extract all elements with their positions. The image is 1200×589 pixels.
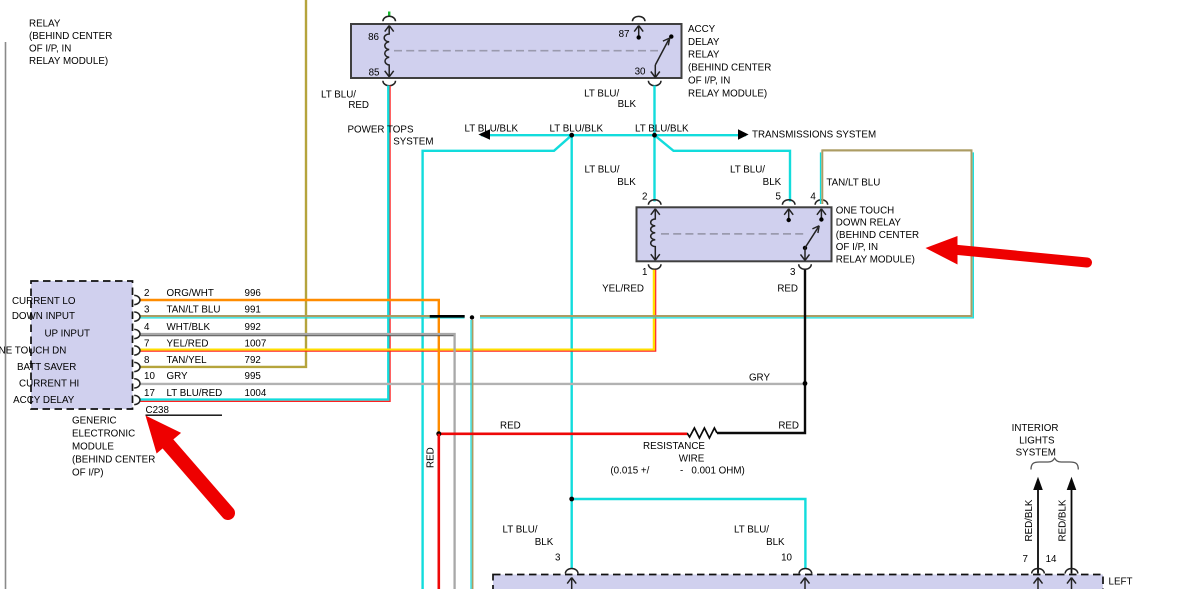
svg-text:1007: 1007 <box>245 338 267 349</box>
wire: bus branch diagonal left to x=422 drop <box>423 135 572 589</box>
svg-text:4: 4 <box>810 192 816 203</box>
connector cup below ACCY pin 30 <box>648 81 661 86</box>
wire: black RED wire from relay pin 3 down to resistor <box>717 270 805 433</box>
svg-text:TAN/LT BLU: TAN/LT BLU <box>167 304 221 315</box>
node: resistance wire caption <box>610 441 744 476</box>
resistor: RESISTANCE WIRE zigzag <box>687 428 717 438</box>
svg-text:SYSTEM: SYSTEM <box>393 136 433 147</box>
module GEM box dashed <box>31 281 133 409</box>
svg-text:TAN/YEL: TAN/YEL <box>167 355 208 366</box>
connector arch above ACCY pin 87 <box>632 16 645 21</box>
svg-text:RED: RED <box>500 421 521 432</box>
node: GEM internal pin function labels <box>0 296 90 406</box>
wire: green stub above pin 86 <box>388 12 390 17</box>
svg-text:GRY: GRY <box>167 371 189 382</box>
svg-text:1: 1 <box>642 267 647 278</box>
svg-text:RESISTANCE: RESISTANCE <box>643 441 705 452</box>
svg-text:YEL/RED: YEL/RED <box>167 338 209 349</box>
connector arch above relay pin 2 <box>648 200 661 205</box>
node: INTERIOR LIGHTS SYSTEM caption <box>1012 423 1059 458</box>
junction dot row 3 splice <box>470 315 474 319</box>
wire: gray off-page wire left edge <box>5 42 7 589</box>
svg-text:5: 5 <box>776 192 782 203</box>
connector arch above bottom pin 10 <box>799 569 812 574</box>
svg-text:BLK: BLK <box>535 537 554 548</box>
svg-text:OF I/P, IN: OF I/P, IN <box>29 44 71 55</box>
svg-text:87: 87 <box>619 29 630 40</box>
node label LT BLU/BLK above relay pin 2 <box>584 164 636 188</box>
wire: LT BLU/BLK bus horizontal <box>481 134 746 136</box>
svg-text:(BEHIND CENTER: (BEHIND CENTER <box>29 31 112 42</box>
node: GEM pin numbers and wire names <box>144 288 267 399</box>
svg-text:86: 86 <box>368 32 379 43</box>
annotation: red arrow pointing to C238 <box>146 416 229 514</box>
svg-text:GENERIC: GENERIC <box>72 416 117 427</box>
pin 4 post with contact dot <box>817 209 826 222</box>
svg-text:GRY: GRY <box>749 373 771 384</box>
relay K1 dashed armature link <box>394 50 658 52</box>
node label LT BLU/BLK below pin 30 <box>584 89 636 111</box>
svg-text:3: 3 <box>555 553 561 564</box>
svg-text:LIGHTS: LIGHTS <box>1019 436 1055 447</box>
relay K2 box ONE TOUCH DOWN RELAY <box>637 207 832 261</box>
svg-text:10: 10 <box>781 553 792 564</box>
svg-text:DELAY: DELAY <box>688 37 720 48</box>
svg-text:BLK: BLK <box>617 177 636 188</box>
connector cup below relay pin 1 <box>648 264 661 269</box>
connector arch above relay pin 4 <box>815 200 828 205</box>
svg-text:17: 17 <box>144 388 155 399</box>
svg-text:LEFT: LEFT <box>1109 577 1133 588</box>
svg-text:BLK: BLK <box>763 177 782 188</box>
junction dot bus right <box>652 133 657 138</box>
svg-text:LT BLU/RED: LT BLU/RED <box>167 388 223 399</box>
svg-text:991: 991 <box>245 304 261 315</box>
connector cup below ACCY pin 85 <box>383 81 396 86</box>
connector arcs GEM pins <box>134 295 140 404</box>
svg-text:LT BLU/: LT BLU/ <box>584 164 619 175</box>
wire: LT BLU/BLK branch y=499 to bottom box pin 10 <box>572 499 806 569</box>
connector arch above relay pin 5 <box>782 200 795 205</box>
svg-text:7: 7 <box>1023 554 1028 565</box>
svg-text:792: 792 <box>245 355 261 366</box>
svg-text:POWER TOPS: POWER TOPS <box>347 124 414 135</box>
svg-text:MODULE: MODULE <box>72 442 114 453</box>
svg-text:RELAY: RELAY <box>688 50 720 61</box>
svg-text:LT BLU/: LT BLU/ <box>584 89 619 100</box>
wire: ORG/WHT 996 from GEM pin 2 down to red splice <box>141 300 439 434</box>
svg-text:BATT SAVER: BATT SAVER <box>17 362 76 373</box>
svg-text:OF I/P): OF I/P) <box>72 468 104 479</box>
connector arch above bottom pin 14 <box>1065 568 1078 573</box>
module: bottom left window motor box dashed <box>493 575 1103 589</box>
node: arrow to POWER TOPS SYSTEM <box>478 129 490 139</box>
pin 5 post with contact dot <box>784 209 793 222</box>
connector arch above bottom pin 3 <box>565 569 578 574</box>
svg-text:WHT/BLK: WHT/BLK <box>167 322 211 333</box>
node label LT BLU/RED <box>321 89 369 111</box>
switch arm of one touch relay to pin 3 <box>801 226 820 261</box>
node label LT BLU/BLK above relay pin 5 <box>730 164 782 188</box>
svg-text:UP INPUT: UP INPUT <box>44 329 90 340</box>
svg-text:CURRENT HI: CURRENT HI <box>19 379 79 390</box>
junction dot red splice <box>436 431 441 436</box>
node: top-left note text RELAY (BEHIND CENTER OF I/P, IN RELAY MODULE) <box>29 19 112 68</box>
wire: bus branch diagonal right to pin 5 <box>655 135 791 201</box>
svg-text:4: 4 <box>144 322 150 333</box>
wire: RED/BLK arrow from interior lights to bottom pin 7 <box>1033 477 1043 574</box>
svg-text:85: 85 <box>369 67 380 78</box>
wire: TAN/LT BLU from GEM pin 3 to black segment <box>141 316 465 318</box>
svg-text:3: 3 <box>790 267 796 278</box>
wire: RED drop to bottom edge <box>437 434 440 589</box>
svg-text:ELECTRONIC: ELECTRONIC <box>72 429 135 440</box>
relay K2 dashed armature link <box>661 233 806 235</box>
svg-text:ACCY DELAY: ACCY DELAY <box>13 395 75 406</box>
node: connector label C238 underlined <box>146 405 223 416</box>
wire: TAN/YEL 792 from GEM pin 8 up to top edge <box>141 0 307 367</box>
connector cup below relay pin 3 <box>799 264 812 269</box>
svg-text:992: 992 <box>245 322 261 333</box>
svg-text:YEL/RED: YEL/RED <box>602 284 644 295</box>
svg-text:RED: RED <box>778 421 799 432</box>
svg-text:TAN/LT BLU: TAN/LT BLU <box>826 178 880 189</box>
svg-text:OF I/P, IN: OF I/P, IN <box>688 76 730 87</box>
svg-text:2: 2 <box>642 192 647 203</box>
svg-text:LT BLU/: LT BLU/ <box>734 525 769 536</box>
svg-text:C238: C238 <box>146 405 170 416</box>
svg-text:ORG/WHT: ORG/WHT <box>167 288 214 299</box>
svg-text:TRANSMISSIONS SYSTEM: TRANSMISSIONS SYSTEM <box>752 129 876 140</box>
svg-text:INTERIOR: INTERIOR <box>1012 423 1059 434</box>
svg-text:3: 3 <box>144 304 150 315</box>
wire: LT BLU/RED from ACCY pin 85 down and left to GEM pin 17 <box>141 86 391 402</box>
wire: RED/BLK arrow from interior lights to bottom pin 14 <box>1067 477 1077 574</box>
svg-text:BLK: BLK <box>618 99 637 110</box>
wire: RED from resistor to splice <box>439 432 687 435</box>
relay K1 box ACCY DELAY RELAY <box>351 24 682 78</box>
node: curly brace over interior lights wires <box>1031 458 1078 469</box>
wire: TAN/LT BLU 991 loop pin 4 to splice <box>480 150 973 318</box>
connector arch above ACCY pin 86 <box>383 16 396 21</box>
annotation: red arrow pointing to one touch relay <box>926 236 1088 265</box>
junction dot at branch <box>569 497 574 502</box>
svg-text:RED: RED <box>348 100 369 111</box>
wire: bus vertical drop at x=571.7 <box>571 135 573 568</box>
svg-text:LT BLU/: LT BLU/ <box>730 164 765 175</box>
svg-text:7: 7 <box>144 338 149 349</box>
wire: TAN/LT BLU drop from splice to bottom edge <box>471 320 473 589</box>
svg-text:CURRENT LO: CURRENT LO <box>12 296 76 307</box>
svg-text:ONE TOUCH DN: ONE TOUCH DN <box>0 346 66 357</box>
wire: YEL/RED 1007 from relay pin 1 to GEM pin 7 <box>141 270 656 352</box>
node label LT BLU/ BLK above bottom pin 10 <box>734 525 785 549</box>
pin arrows inside bottom box <box>567 578 1076 589</box>
svg-text:OF I/P, IN: OF I/P, IN <box>836 242 878 253</box>
svg-text:14: 14 <box>1046 554 1057 565</box>
svg-text:LT BLU/BLK: LT BLU/BLK <box>465 124 519 135</box>
coil of ACCY relay pins 86/85 <box>384 26 394 77</box>
svg-text:(BEHIND CENTER: (BEHIND CENTER <box>72 455 155 466</box>
svg-text:(BEHIND CENTER: (BEHIND CENTER <box>836 230 919 241</box>
svg-text:8: 8 <box>144 355 150 366</box>
svg-text:DOWN RELAY: DOWN RELAY <box>836 218 902 229</box>
junction dot GRY on pin3 wire <box>803 381 808 386</box>
node label LT BLU/ BLK above bottom pin 3 <box>502 525 553 549</box>
svg-text:30: 30 <box>635 66 646 77</box>
node: one touch relay note text <box>836 205 919 265</box>
svg-text:RELAY MODULE): RELAY MODULE) <box>688 88 767 99</box>
svg-text:RELAY: RELAY <box>29 19 61 30</box>
svg-text:LT BLU/BLK: LT BLU/BLK <box>550 124 604 135</box>
node label POWER TOPS SYSTEM <box>347 124 433 147</box>
svg-text:SYSTEM: SYSTEM <box>1016 447 1056 458</box>
svg-text:RED/BLK: RED/BLK <box>1024 499 1035 541</box>
svg-text:(0.015 +/: (0.015 +/ <box>610 465 649 476</box>
node: arrow to TRANSMISSIONS SYSTEM <box>738 129 749 140</box>
pin 87 post with contact dot <box>634 26 643 40</box>
svg-text:- 0.001 OHM): - 0.001 OHM) <box>680 465 745 476</box>
svg-text:996: 996 <box>245 288 262 299</box>
switch arm of ACCY relay to pin 30 <box>651 34 674 77</box>
junction dot bus left <box>569 133 574 138</box>
svg-text:RED: RED <box>777 284 798 295</box>
svg-text:(BEHIND CENTER: (BEHIND CENTER <box>688 63 771 74</box>
wire: GRY 995 from GEM pin 10 to junction on pin 3 wire <box>141 383 806 385</box>
svg-text:ONE TOUCH: ONE TOUCH <box>836 205 894 216</box>
svg-text:10: 10 <box>144 371 155 382</box>
svg-text:LT BLU/: LT BLU/ <box>502 525 537 536</box>
svg-text:DOWN INPUT: DOWN INPUT <box>12 311 75 322</box>
svg-text:BLK: BLK <box>766 537 785 548</box>
svg-text:995: 995 <box>245 371 262 382</box>
wire: LT BLU/BLK from ACCY pin 30 down to bus junction and on to relay pin 2 <box>653 86 655 202</box>
coil of one touch relay pins 2/1 <box>651 209 660 260</box>
svg-text:1004: 1004 <box>245 388 267 399</box>
svg-text:ACCY: ACCY <box>688 24 716 35</box>
wire: WHT/BLK 992 from GEM pin 4 down to bottom edge <box>141 334 455 589</box>
node: GEM caption text <box>72 416 155 479</box>
connector arch above bottom pin 7 <box>1032 568 1045 573</box>
svg-text:RED/BLK: RED/BLK <box>1057 499 1068 541</box>
wire: black overlay segment on row 3 <box>430 315 465 318</box>
node: ACCY relay right side note <box>688 24 771 100</box>
svg-text:RELAY MODULE): RELAY MODULE) <box>29 56 108 67</box>
svg-text:RED: RED <box>426 447 437 468</box>
svg-text:RELAY MODULE): RELAY MODULE) <box>836 255 915 266</box>
svg-text:WIRE: WIRE <box>679 453 705 464</box>
svg-text:LT BLU/: LT BLU/ <box>321 89 356 100</box>
svg-text:2: 2 <box>144 288 149 299</box>
svg-text:LT BLU/BLK: LT BLU/BLK <box>635 124 689 135</box>
